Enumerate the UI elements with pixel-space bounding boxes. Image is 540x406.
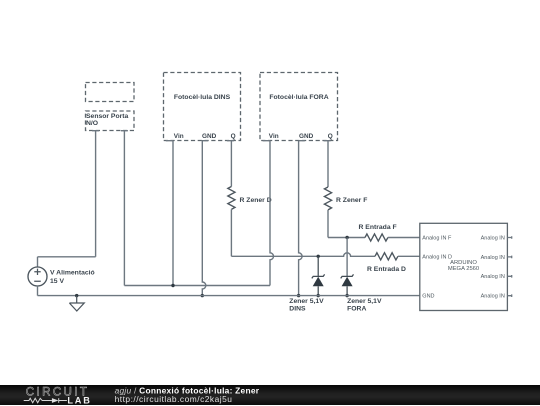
- resistor R Zener F: [324, 187, 331, 210]
- footer bar: [0, 385, 540, 406]
- svg-text:R Zener F: R Zener F: [336, 197, 367, 204]
- sensor label Sensor Porta N/O: [86, 113, 129, 127]
- node zener DINS top: [317, 255, 320, 258]
- wire FORA Vin down with hop over row D: [270, 141, 273, 286]
- arduino right stubs: [507, 236, 511, 297]
- svg-text:FORA: FORA: [347, 305, 366, 312]
- label R Zener F: [336, 197, 367, 204]
- ground symbol: [69, 296, 84, 311]
- svg-text:http://circuitlab.com/c2kaj5u: http://circuitlab.com/c2kaj5u: [115, 393, 233, 403]
- node zener DINS bottom: [317, 294, 320, 297]
- ground rail wire: [38, 295, 420, 297]
- sensor pin 2 tick: [121, 130, 128, 132]
- svg-text:GND: GND: [202, 133, 217, 140]
- wire V- down: [37, 286, 39, 296]
- svg-text:MEGA 2560: MEGA 2560: [448, 266, 479, 272]
- wire row D horizontal with hop at 347.1: [231, 253, 375, 257]
- wire DINS GND down with hop over Vin row: [202, 141, 206, 296]
- svg-text:R Entrada D: R Entrada D: [367, 266, 406, 273]
- svg-text:Q: Q: [328, 133, 333, 140]
- svg-text:Analog IN: Analog IN: [481, 294, 505, 300]
- svg-text:LAB: LAB: [67, 395, 91, 405]
- wire R Entrada F to arduino: [388, 237, 420, 239]
- wire R Zener D bottom: [230, 209, 232, 256]
- label Zener 5,1V DINS: [289, 298, 324, 312]
- label R Entrada D: [367, 266, 406, 273]
- svg-text:N/O: N/O: [86, 120, 98, 127]
- svg-text:Q: Q: [231, 133, 236, 140]
- node FORA GND to rail: [297, 294, 300, 297]
- node DINS Vin junction: [171, 284, 174, 287]
- wire sensor pin1 down: [95, 131, 97, 257]
- sensor pin 1 tick: [92, 130, 99, 132]
- svg-text:V Alimentació: V Alimentació: [50, 270, 95, 277]
- svg-text:Analog IN: Analog IN: [481, 274, 505, 280]
- wire branch down to zener FORA: [346, 238, 348, 277]
- svg-text:Zener 5,1V: Zener 5,1V: [289, 298, 324, 305]
- wire V+ vertical: [37, 257, 39, 267]
- node ground tap: [75, 294, 78, 297]
- svg-text:R Zener D: R Zener D: [240, 197, 272, 204]
- resistor R Entrada D: [375, 253, 398, 260]
- wire row F horizontal: [328, 237, 365, 239]
- svg-text:Zener 5,1V: Zener 5,1V: [347, 298, 382, 305]
- wire DINS Q down: [230, 141, 232, 187]
- fotocell DINS dashed box: [164, 73, 241, 141]
- node branch to zener FORA: [345, 236, 348, 239]
- svg-text:Analog IN: Analog IN: [481, 236, 505, 242]
- svg-text:GND: GND: [299, 133, 314, 140]
- svg-text:GND: GND: [422, 294, 434, 300]
- fotocell FORA pin labels Vin GND Q: [269, 133, 333, 140]
- voltage source V1: [28, 267, 47, 286]
- wire DINS Vin down: [172, 141, 174, 286]
- svg-text:Fotocèl·lula FORA: Fotocèl·lula FORA: [269, 94, 328, 101]
- label Zener 5,1V FORA: [347, 298, 382, 312]
- wire R Entrada D to arduino: [398, 255, 420, 257]
- wire sensor pin2 down: [123, 131, 125, 286]
- logo squiggle resistor+diode: [24, 398, 67, 403]
- arduino left pin labels: [422, 236, 452, 300]
- svg-text:Analog IN D: Analog IN D: [422, 254, 452, 260]
- node DINS GND to rail: [201, 294, 204, 297]
- label V Alimentació 15 V: [50, 270, 95, 285]
- svg-text:Vin: Vin: [269, 133, 279, 140]
- svg-text:DINS: DINS: [289, 305, 306, 312]
- arduino U1 box: [420, 223, 508, 310]
- zener D2 FORA: [341, 274, 354, 295]
- arduino right pin labels: [481, 236, 505, 300]
- fotocell FORA name: [269, 94, 328, 101]
- svg-text:Analog IN: Analog IN: [481, 255, 505, 261]
- zener D1 DINS: [312, 256, 325, 295]
- svg-text:Analog IN F: Analog IN F: [422, 236, 452, 242]
- svg-text:Sensor Porta: Sensor Porta: [86, 113, 129, 120]
- svg-text:Fotocèl·lula DINS: Fotocèl·lula DINS: [174, 94, 231, 101]
- resistor R Zener D: [228, 187, 235, 210]
- svg-text:R Entrada F: R Entrada F: [359, 224, 397, 231]
- svg-text:15 V: 15 V: [50, 278, 64, 285]
- wire FORA Q down: [327, 141, 329, 187]
- wire V+ horizontal to sensor: [38, 256, 96, 258]
- wire R Zener F bottom: [327, 210, 329, 238]
- label R Entrada F: [359, 224, 397, 231]
- label R Zener D: [240, 197, 272, 204]
- sensor SW1 dashed label box: [86, 111, 135, 131]
- fotocell DINS pin ticks: [166, 140, 234, 142]
- sensor SW1 dashed contact box: [86, 83, 135, 102]
- fotocell FORA pin ticks: [263, 140, 331, 142]
- wire Vin row horizontal: [124, 285, 270, 287]
- fotocell FORA dashed box: [260, 73, 338, 141]
- fotocell DINS name: [174, 94, 231, 101]
- fotocell DINS pin labels Vin GND Q: [174, 133, 236, 140]
- resistor R Entrada F: [365, 234, 388, 241]
- svg-text:Vin: Vin: [174, 133, 184, 140]
- wire FORA GND down with hop over row D: [299, 141, 302, 296]
- arduino name: [448, 260, 479, 272]
- node zener FORA bottom: [345, 294, 348, 297]
